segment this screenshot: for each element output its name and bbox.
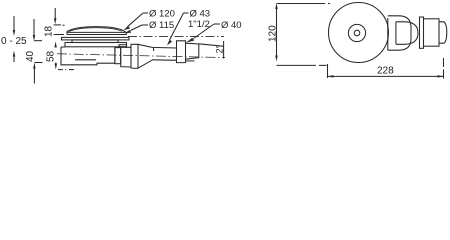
228 left extension: [327, 64, 329, 78]
pipe end bottom: [186, 60, 195, 62]
tray lip: [119, 45, 127, 47]
dimension 40 line lower: [33, 63, 42, 84]
top view elbow block: [388, 16, 411, 50]
flange plate: [62, 37, 130, 40]
dimension 18 arrow: [54, 8, 65, 35]
top view body circle: [329, 3, 389, 63]
dimension 0-25 line upper: [13, 16, 16, 36]
leader O115: [125, 25, 149, 33]
120 bottom extension line: [277, 64, 327, 66]
svg-text:18: 18: [44, 25, 55, 37]
outlet collar: [131, 44, 138, 68]
top view inner circle: [354, 30, 360, 36]
svg-text:1"1/2: 1"1/2: [188, 19, 210, 30]
leader O120: [124, 13, 149, 30]
leader O40: [186, 24, 220, 43]
dimension 58 arrows: [54, 42, 74, 70]
228 dimension line: [328, 75, 444, 78]
pipe nut top view: [424, 19, 440, 46]
2 degree dimension line: [223, 41, 225, 59]
pipe ring top view: [420, 17, 424, 48]
svg-text:Ø 120: Ø 120: [149, 9, 175, 20]
svg-text:228: 228: [377, 66, 394, 77]
dimension 120 vertical line: [275, 3, 278, 61]
svg-text:40: 40: [25, 50, 36, 62]
outlet joint ring: [115, 48, 121, 64]
pipe end ring: [186, 43, 199, 59]
tray plate: [65, 43, 127, 47]
svg-text:Ø 40: Ø 40: [221, 20, 242, 31]
2 degree extension line: [199, 44, 224, 47]
svg-text:2°: 2°: [215, 44, 225, 53]
outlet cylinder: [152, 47, 177, 60]
taper cone: [138, 44, 152, 68]
seal ring: [72, 40, 118, 43]
tray level dash-dot line: [128, 35, 224, 37]
outlet nut: [121, 47, 131, 67]
trap body: [61, 47, 115, 65]
pipe end cap top view: [439, 22, 447, 43]
svg-text:120: 120: [268, 25, 279, 42]
pipe hub ring: [177, 41, 186, 63]
120 top extension line: [277, 3, 331, 5]
leader O43: [167, 13, 189, 45]
center line side view: [57, 54, 225, 58]
svg-text:Ø 43: Ø 43: [190, 9, 211, 20]
228 right extension: [443, 58, 445, 81]
dimension 40 line upper: [33, 19, 42, 41]
dimension 0-25 line lower: [13, 51, 16, 63]
drain cap dome side view: [67, 27, 127, 35]
svg-text:0 - 25: 0 - 25: [1, 36, 27, 47]
svg-text:58: 58: [46, 50, 57, 62]
pipe bullet top view: [396, 22, 418, 45]
top view mid circle: [348, 24, 365, 41]
svg-text:Ø 115: Ø 115: [149, 20, 174, 31]
